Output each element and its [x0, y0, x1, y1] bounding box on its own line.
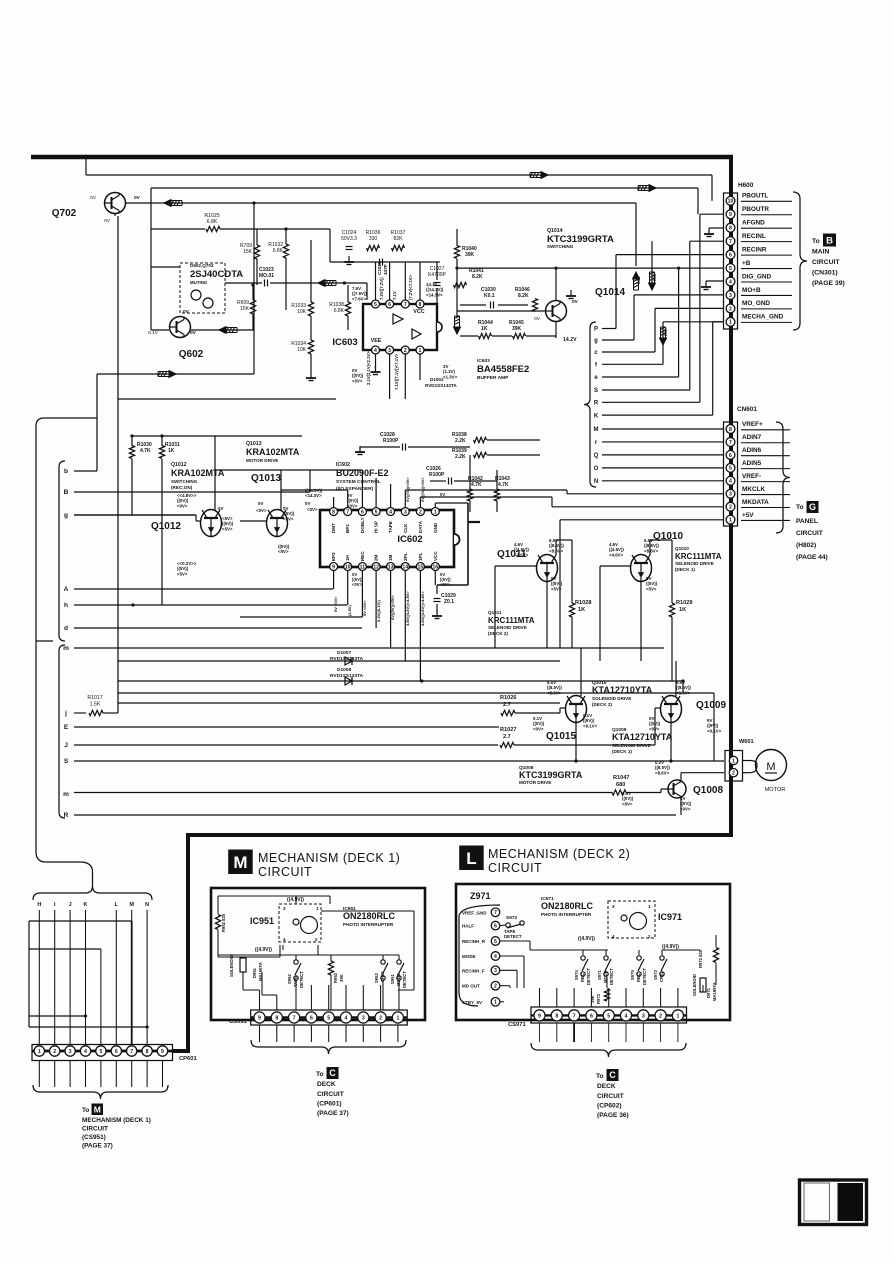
- svg-text:PHOTO INTERRUPTER: PHOTO INTERRUPTER: [541, 912, 592, 917]
- svg-text:R100P: R100P: [429, 472, 445, 478]
- svg-text:VCC: VCC: [433, 551, 438, 561]
- svg-text:VCC: VCC: [413, 309, 424, 315]
- svg-text:B: B: [64, 489, 69, 496]
- svg-text:3: 3: [729, 492, 732, 498]
- svg-text:DETECT: DETECT: [299, 971, 304, 988]
- svg-text:4: 4: [494, 954, 497, 960]
- svg-text:SOLENOID: SOLENOID: [692, 974, 697, 996]
- svg-text:<5V>: <5V>: [646, 586, 657, 591]
- svg-text:11: 11: [360, 564, 366, 570]
- svg-text:SYSTEM CONTROL: SYSTEM CONTROL: [336, 479, 381, 485]
- svg-text:(PAGE 44): (PAGE 44): [796, 554, 828, 561]
- svg-text:KTA12710YTA: KTA12710YTA: [592, 685, 653, 695]
- svg-text:CS971: CS971: [508, 1022, 527, 1028]
- svg-text:5V: 5V: [218, 506, 223, 511]
- svg-text:14: 14: [402, 564, 408, 570]
- svg-text:<0V>: <0V>: [680, 806, 691, 811]
- svg-text:7: 7: [404, 302, 407, 308]
- svg-text:((4.9V)): ((4.9V)): [255, 947, 272, 953]
- svg-text:S972: S972: [506, 915, 518, 921]
- svg-text:SWITCHING: SWITCHING: [547, 244, 574, 249]
- svg-text:3: 3: [69, 1049, 72, 1055]
- svg-text:PANEL: PANEL: [796, 518, 818, 525]
- svg-text:6.8K: 6.8K: [334, 308, 345, 314]
- svg-text:G: G: [809, 502, 816, 512]
- svg-text:O: O: [594, 466, 599, 472]
- svg-text:<5V>: <5V>: [222, 526, 233, 531]
- svg-text:2: 2: [53, 1049, 56, 1055]
- svg-text:M: M: [233, 853, 247, 872]
- svg-text:MECHANISM (DECK 1): MECHANISM (DECK 1): [82, 1117, 151, 1124]
- svg-text:<8.6V>: <8.6V>: [644, 548, 659, 553]
- svg-text:0V: 0V: [440, 492, 445, 497]
- svg-text:(H802): (H802): [796, 542, 816, 549]
- svg-text:g: g: [64, 512, 68, 519]
- svg-text:7.1V: 7.1V: [392, 291, 397, 300]
- svg-text:RVD1SS133TA: RVD1SS133TA: [330, 656, 364, 662]
- svg-text:2SJ40CDTA: 2SJ40CDTA: [190, 269, 243, 280]
- svg-text:4: 4: [612, 934, 615, 939]
- svg-text:CIRCUIT: CIRCUIT: [82, 1126, 108, 1133]
- svg-text:5: 5: [494, 939, 497, 945]
- svg-text:N: N: [145, 902, 149, 908]
- svg-text:5V <0V>: 5V <0V>: [362, 600, 367, 616]
- svg-text:<0V>: <0V>: [352, 378, 363, 383]
- svg-text:5: 5: [375, 509, 378, 515]
- svg-text:0V: 0V: [305, 501, 310, 506]
- svg-text:g: g: [594, 338, 598, 344]
- svg-text:VEE: VEE: [371, 338, 382, 344]
- svg-text:B08: B08: [636, 276, 641, 284]
- svg-text:PBOUTR: PBOUTR: [742, 206, 769, 213]
- svg-text:4: 4: [374, 348, 377, 354]
- svg-text:8: 8: [729, 226, 732, 232]
- svg-text:S973: S973: [653, 970, 658, 980]
- svg-text:<9.1V>: <9.1V>: [707, 728, 722, 733]
- svg-text:<5V>: <5V>: [278, 549, 289, 554]
- svg-text:IC971: IC971: [658, 912, 682, 922]
- svg-text:MO_GND: MO_GND: [742, 300, 770, 307]
- svg-text:R1017: R1017: [87, 695, 102, 701]
- svg-text:REC: REC: [360, 551, 365, 561]
- svg-text:6: 6: [494, 923, 497, 929]
- svg-text:0V: 0V: [534, 316, 541, 322]
- svg-text:A: A: [64, 586, 69, 593]
- svg-text:5: 5: [729, 266, 732, 272]
- svg-text:S974: S974: [574, 970, 579, 980]
- svg-text:4: 4: [729, 279, 732, 285]
- svg-text:MO.01: MO.01: [259, 273, 274, 279]
- svg-text:3: 3: [729, 293, 732, 299]
- svg-text:Q602: Q602: [179, 349, 204, 360]
- svg-text:W601: W601: [739, 739, 754, 745]
- svg-text:HALF: HALF: [462, 924, 474, 929]
- svg-text:1: 1: [419, 348, 422, 354]
- svg-text:DETECT: DETECT: [504, 934, 522, 939]
- svg-text:To: To: [596, 1073, 604, 1080]
- svg-text:1: 1: [38, 1049, 41, 1055]
- svg-text:B08: B08: [652, 273, 657, 281]
- svg-text:R1029: R1029: [676, 600, 692, 606]
- svg-text:BP1: BP1: [345, 524, 350, 533]
- svg-text:9: 9: [538, 1013, 541, 1019]
- svg-text:R: R: [64, 812, 69, 819]
- svg-text:DETECT: DETECT: [609, 968, 614, 985]
- svg-text:SELENOID DRIVE: SELENOID DRIVE: [675, 561, 714, 566]
- svg-text:7: 7: [293, 1015, 296, 1021]
- svg-text:1: 1: [434, 509, 437, 515]
- svg-text:39K: 39K: [339, 974, 344, 982]
- svg-text:4.8V((4.8V))<4.8V>: 4.8V((4.8V))<4.8V>: [420, 591, 425, 626]
- svg-text:DATA: DATA: [418, 520, 423, 533]
- svg-text:m: m: [63, 791, 69, 798]
- svg-text:MUTING: MUTING: [190, 280, 208, 285]
- svg-text:(PAGE 36): (PAGE 36): [597, 1112, 629, 1119]
- svg-text:PHOTO INTERRUPTER: PHOTO INTERRUPTER: [343, 922, 394, 927]
- svg-text:DECK: DECK: [317, 1081, 336, 1088]
- svg-text:8.2K: 8.2K: [472, 274, 483, 280]
- svg-text:Z971: Z971: [470, 891, 491, 901]
- svg-text:15K: 15K: [243, 249, 253, 255]
- svg-text:3: 3: [362, 1015, 365, 1021]
- svg-text:2: 2: [659, 1013, 662, 1019]
- svg-text:(CP602): (CP602): [597, 1103, 622, 1110]
- svg-text:9: 9: [332, 564, 335, 570]
- svg-text:D1008: D1008: [337, 667, 351, 673]
- svg-text:H600: H600: [738, 182, 754, 189]
- svg-text:3: 3: [612, 904, 615, 909]
- svg-text:VREF+: VREF+: [742, 421, 763, 428]
- svg-text:AFGND: AFGND: [742, 220, 765, 227]
- svg-text:2: 2: [419, 509, 422, 515]
- svg-text:(DECK 1): (DECK 1): [675, 567, 695, 572]
- svg-text:2: 2: [729, 505, 732, 511]
- svg-text:4.7K: 4.7K: [471, 482, 482, 488]
- svg-text:MO+B: MO+B: [742, 287, 761, 294]
- svg-text:M: M: [129, 902, 134, 908]
- svg-text:7: 7: [729, 239, 732, 245]
- svg-text:(CS951): (CS951): [82, 1134, 106, 1141]
- svg-text:MD OUT: MD OUT: [462, 984, 480, 989]
- svg-text:(DECK 1): (DECK 1): [612, 749, 632, 754]
- svg-text:IC951: IC951: [250, 916, 274, 926]
- svg-text:680: 680: [616, 782, 625, 788]
- svg-text:CIRCUIT: CIRCUIT: [488, 861, 542, 875]
- svg-text:S971: S971: [597, 970, 602, 980]
- svg-text:R1026: R1026: [500, 695, 516, 701]
- svg-text:To: To: [316, 1071, 324, 1078]
- svg-text:82K: 82K: [394, 236, 404, 242]
- svg-text:TAPE: TAPE: [388, 521, 393, 533]
- svg-text:50V3.3: 50V3.3: [341, 236, 357, 242]
- svg-text:4: 4: [625, 1013, 628, 1019]
- svg-text:DECK: DECK: [597, 1083, 616, 1090]
- svg-text:2M: 2M: [374, 554, 379, 561]
- svg-text:To: To: [812, 238, 820, 245]
- svg-text:13: 13: [388, 564, 394, 570]
- svg-text:D1007: D1007: [337, 650, 351, 656]
- svg-text:CIRCUIT: CIRCUIT: [796, 530, 823, 537]
- svg-text:<9.1V>: <9.1V>: [583, 723, 598, 728]
- svg-text:L: L: [466, 849, 476, 868]
- svg-text:8: 8: [275, 1015, 278, 1021]
- svg-text:3: 3: [388, 348, 391, 354]
- svg-text:KTA12710YTA: KTA12710YTA: [612, 732, 673, 742]
- svg-text:1.5K: 1.5K: [90, 702, 101, 708]
- svg-text:D971: D971: [706, 987, 711, 998]
- svg-text:R972 820: R972 820: [698, 949, 703, 968]
- svg-text:9: 9: [161, 1049, 164, 1055]
- svg-text:0.1V: 0.1V: [148, 330, 159, 336]
- svg-text:SWITCHING: SWITCHING: [171, 479, 198, 484]
- svg-text:1M: 1M: [388, 554, 393, 561]
- svg-text:R: R: [594, 401, 599, 407]
- svg-text:((4.9V)): ((4.9V)): [578, 936, 595, 942]
- svg-text:<8.6V>: <8.6V>: [676, 690, 691, 695]
- svg-text:(I/O EXPANDER): (I/O EXPANDER): [336, 486, 374, 492]
- svg-text:+5V: +5V: [742, 512, 754, 519]
- svg-text:<0V>: <0V>: [177, 503, 188, 508]
- svg-text:1: 1: [729, 518, 732, 524]
- svg-text:STBY_5V: STBY_5V: [462, 1000, 482, 1005]
- svg-text:J: J: [64, 742, 68, 749]
- svg-text:8: 8: [146, 1049, 149, 1055]
- svg-text:R1028: R1028: [575, 600, 591, 606]
- svg-text:2: 2: [729, 306, 732, 312]
- svg-text:0V: 0V: [134, 195, 141, 201]
- svg-text:MOTOR DRIVE: MOTOR DRIVE: [246, 458, 278, 463]
- svg-text:6: 6: [310, 1015, 313, 1021]
- svg-text:CN601: CN601: [737, 406, 757, 413]
- svg-text:0V((0V))<0V>: 0V((0V))<0V>: [420, 477, 425, 502]
- svg-text:ON2180RLC: ON2180RLC: [541, 901, 594, 911]
- svg-text:2.7: 2.7: [503, 734, 511, 740]
- svg-text:S952: S952: [287, 974, 292, 984]
- svg-text:MKCLK: MKCLK: [742, 486, 765, 493]
- svg-text:<0V>: <0V>: [256, 508, 267, 513]
- svg-text:2.1V(2.1V)<2.1V>: 2.1V(2.1V)<2.1V>: [366, 351, 371, 385]
- svg-text:39K: 39K: [590, 995, 595, 1003]
- svg-text:C: C: [609, 1070, 616, 1080]
- svg-text:2: 2: [732, 771, 735, 777]
- svg-text:RECINL: RECINL: [742, 233, 766, 240]
- svg-text:5: 5: [99, 1049, 102, 1055]
- svg-text:(2.8V): (2.8V): [347, 604, 352, 616]
- svg-text:1K: 1K: [168, 448, 175, 454]
- svg-text:S: S: [64, 758, 69, 765]
- svg-text:P: P: [594, 327, 598, 333]
- svg-text:DMT: DMT: [331, 523, 336, 533]
- svg-text:REC: REC: [580, 973, 585, 982]
- svg-text:To: To: [796, 504, 804, 511]
- svg-text:1PL: 1PL: [418, 552, 423, 561]
- svg-text:KTC3199GRTA: KTC3199GRTA: [519, 770, 583, 780]
- svg-text:2PL: 2PL: [403, 552, 408, 561]
- svg-text:<4.6V>: <4.6V>: [609, 552, 624, 557]
- svg-text:1K: 1K: [481, 326, 488, 332]
- svg-text:10: 10: [345, 564, 351, 570]
- svg-text:GND: GND: [433, 522, 438, 533]
- svg-text:Z0.1: Z0.1: [444, 599, 454, 605]
- svg-text:ADIN7: ADIN7: [742, 434, 762, 441]
- svg-text:7.2V((7.2V)): 7.2V((7.2V)): [379, 277, 384, 300]
- svg-text:IC603: IC603: [332, 337, 357, 348]
- svg-text:2.7: 2.7: [503, 702, 511, 708]
- svg-text:12: 12: [373, 564, 379, 570]
- svg-text:KRC111MTA: KRC111MTA: [675, 552, 722, 561]
- svg-text:<5V>: <5V>: [177, 571, 188, 576]
- svg-text:(PAGE 37): (PAGE 37): [317, 1110, 349, 1117]
- svg-text:<0V>: <0V>: [307, 507, 318, 512]
- svg-text:5V: 5V: [258, 501, 263, 506]
- svg-text:2: 2: [648, 934, 651, 939]
- svg-text:Q1014: Q1014: [595, 287, 625, 298]
- svg-text:1: 1: [316, 906, 319, 911]
- svg-text:39K: 39K: [512, 326, 522, 332]
- svg-text:1K: 1K: [578, 607, 585, 613]
- svg-text:Q1013: Q1013: [251, 473, 281, 484]
- svg-text:7: 7: [494, 910, 497, 916]
- svg-text:R100P: R100P: [383, 438, 399, 444]
- svg-text:1: 1: [494, 1000, 497, 1006]
- svg-text:5: 5: [327, 1015, 330, 1021]
- svg-text:2: 2: [494, 984, 497, 990]
- svg-text:SOLENOID: SOLENOID: [229, 955, 234, 977]
- svg-text:<8.6V>: <8.6V>: [547, 690, 562, 695]
- svg-text:S975: S975: [630, 970, 635, 980]
- svg-text:K0.1: K0.1: [484, 293, 495, 299]
- svg-text:3: 3: [494, 968, 497, 974]
- svg-text:(CN301): (CN301): [812, 270, 838, 277]
- svg-text:ADIN6: ADIN6: [742, 447, 762, 454]
- svg-text:39K: 39K: [465, 252, 475, 258]
- svg-text:DETECT: DETECT: [586, 968, 591, 985]
- svg-text:MAIN: MAIN: [812, 249, 829, 256]
- svg-text:R973: R973: [596, 993, 601, 1004]
- svg-text:R1047: R1047: [613, 775, 629, 781]
- svg-text:8: 8: [332, 509, 335, 515]
- svg-text:<0V>: <0V>: [352, 582, 363, 587]
- svg-text:DETECT: DETECT: [402, 971, 407, 988]
- svg-text:2.2K: 2.2K: [455, 438, 466, 444]
- svg-text:1H: 1H: [345, 554, 350, 561]
- svg-text:4: 4: [283, 937, 286, 942]
- svg-text:b: b: [64, 468, 68, 475]
- svg-text:EP2: EP2: [331, 552, 336, 561]
- svg-text:10K: 10K: [297, 347, 307, 353]
- svg-text:4: 4: [84, 1049, 87, 1055]
- svg-text:H: H: [37, 902, 41, 908]
- svg-text:CIRCUIT: CIRCUIT: [597, 1093, 624, 1100]
- svg-text:10K: 10K: [297, 309, 307, 315]
- svg-text:Q1008: Q1008: [693, 785, 723, 796]
- svg-text:j: j: [64, 710, 67, 717]
- svg-text:S951: S951: [390, 974, 395, 984]
- svg-text:1: 1: [676, 1013, 679, 1019]
- svg-text:6: 6: [388, 302, 391, 308]
- svg-text:1: 1: [396, 1015, 399, 1021]
- svg-text:R1027: R1027: [500, 727, 516, 733]
- svg-text:<7.6V>: <7.6V>: [352, 296, 367, 301]
- svg-text:2: 2: [379, 1015, 382, 1021]
- svg-text:REC: REC: [636, 973, 641, 982]
- svg-text:RECINR: RECINR: [742, 246, 767, 253]
- svg-text:h: h: [64, 602, 68, 609]
- svg-text:6: 6: [361, 509, 364, 515]
- svg-text:2.2K: 2.2K: [455, 454, 466, 460]
- svg-text:6: 6: [590, 1013, 593, 1019]
- svg-text:((4.9V)): ((4.9V)): [662, 944, 679, 950]
- svg-text:CR02: CR02: [659, 971, 664, 982]
- svg-text:ON2180RLC: ON2180RLC: [343, 911, 396, 921]
- svg-text:<4.6V>: <4.6V>: [514, 552, 529, 557]
- svg-text:MODE: MODE: [462, 954, 476, 959]
- svg-text:(7.2V)<7.1V>: (7.2V)<7.1V>: [408, 275, 413, 300]
- svg-text:MECHANISM (DECK 2): MECHANISM (DECK 2): [488, 847, 630, 861]
- svg-text:Q1012: Q1012: [151, 521, 181, 532]
- svg-text:d: d: [64, 625, 68, 632]
- svg-text:0V: 0V: [572, 299, 579, 305]
- svg-text:4.7K: 4.7K: [498, 482, 509, 488]
- svg-text:9: 9: [258, 1015, 261, 1021]
- svg-text:+B: +B: [742, 260, 751, 267]
- svg-text:Q702: Q702: [52, 208, 77, 219]
- svg-text:4: 4: [345, 1015, 348, 1021]
- svg-text:4.8V((4.8V))<4.8V>: 4.8V((4.8V))<4.8V>: [405, 591, 410, 626]
- svg-text:IC602: IC602: [397, 534, 422, 545]
- svg-text:SELENOID DRIVE: SELENOID DRIVE: [488, 625, 527, 630]
- svg-text:D951: D951: [252, 967, 257, 978]
- svg-text:(DECK 2): (DECK 2): [592, 702, 612, 707]
- svg-text:7.1V((7.1V))<7.1V>: 7.1V((7.1V))<7.1V>: [394, 353, 399, 390]
- svg-text:RECINH_R: RECINH_R: [462, 939, 486, 944]
- svg-text:0V: 0V: [190, 330, 197, 336]
- svg-text:9: 9: [729, 212, 732, 218]
- svg-text:5: 5: [607, 1013, 610, 1019]
- svg-text:7: 7: [346, 509, 349, 515]
- svg-text:14.2V: 14.2V: [563, 337, 577, 343]
- svg-text:5: 5: [729, 466, 732, 472]
- svg-text:DETECT: DETECT: [642, 968, 647, 985]
- svg-text:R953: R953: [333, 972, 338, 983]
- svg-text:PBOUTL: PBOUTL: [742, 193, 768, 200]
- svg-text:VREF_GND: VREF_GND: [462, 910, 487, 915]
- svg-text:R952 820: R952 820: [221, 913, 226, 932]
- svg-text:1: 1: [732, 758, 735, 764]
- svg-text:K: K: [594, 413, 599, 419]
- svg-text:CP601: CP601: [179, 1056, 198, 1062]
- svg-text:3: 3: [642, 1013, 645, 1019]
- svg-text:KRA102MTA: KRA102MTA: [246, 447, 300, 457]
- svg-text:Q1009: Q1009: [696, 700, 726, 711]
- svg-text:MKDATA: MKDATA: [742, 499, 769, 506]
- svg-text:6: 6: [729, 453, 732, 459]
- svg-text:2: 2: [404, 348, 407, 354]
- svg-text:0V: 0V: [90, 195, 97, 201]
- svg-text:D1002: D1002: [430, 377, 444, 382]
- svg-text:CIRCUIT: CIRCUIT: [317, 1091, 344, 1098]
- svg-text:MOTOR: MOTOR: [765, 787, 786, 793]
- svg-text:15: 15: [418, 564, 424, 570]
- svg-text:10: 10: [728, 199, 734, 205]
- svg-text:DIG_GND: DIG_GND: [742, 273, 772, 280]
- svg-text:J: J: [69, 902, 72, 908]
- svg-text:VREF-: VREF-: [742, 473, 761, 480]
- svg-text:<8.6V>: <8.6V>: [655, 770, 670, 775]
- svg-text:<5V>: <5V>: [283, 516, 294, 521]
- svg-text:6.8K: 6.8K: [273, 248, 284, 254]
- svg-text:7: 7: [573, 1013, 576, 1019]
